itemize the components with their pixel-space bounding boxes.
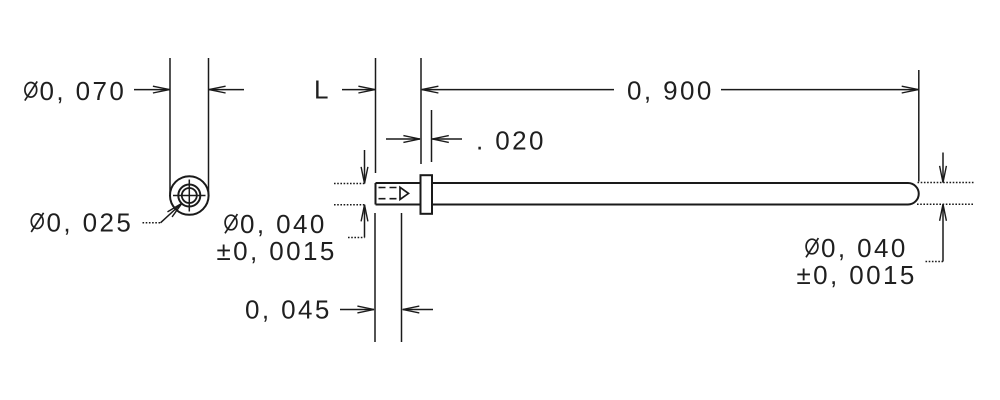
left dim Ø0.040: top extension line (334, 183, 365, 185)
right dim Ø0.040: upper arrow line (942, 153, 944, 183)
end view: middle circle Ø0.040 (178, 185, 200, 207)
extension line: pin right end (top) (918, 70, 920, 182)
dim 0.900: right line segment (721, 89, 918, 91)
dim 0.900: left line segment (422, 89, 614, 91)
dim .020: right arrow line (432, 138, 462, 140)
side view: hidden hole top dashed line (379, 187, 398, 189)
end view: left tangent extension line (169, 58, 171, 194)
dim 0.045: left extension line (374, 213, 376, 342)
end view: right tangent extension line (208, 58, 210, 194)
dim 0.045: right arrow line (403, 309, 433, 311)
side view: collar flange (421, 175, 433, 214)
left dim Ø0.040: bottom extension line (334, 204, 365, 206)
svg-text:0, 900: 0, 900 (627, 76, 714, 106)
dim Ø0.070: right arrowhead (209, 86, 226, 93)
left dim Ø0.040: upper arrowhead (down) (361, 167, 368, 184)
svg-text:±0, 0015: ±0, 0015 (797, 260, 917, 290)
right dim Ø0.040: bottom extension line (917, 203, 974, 205)
end view: centerline vertical (188, 180, 190, 212)
svg-text:0, 025: 0, 025 (47, 208, 134, 238)
right dim Ø0.040: upper arrowhead (down) (940, 166, 947, 183)
dim Ø0.070: left arrowhead (153, 86, 170, 93)
label Ø0.070: diameter symbol (25, 81, 37, 100)
dim .020: left arrowhead (403, 136, 420, 143)
label Ø0.025: diameter symbol (31, 213, 43, 232)
dim Ø0.070: left arrow line (134, 89, 170, 91)
left dim Ø0.040: lower arrow line (364, 205, 366, 238)
dim .020: right arrowhead (432, 136, 449, 143)
svg-text:L: L (314, 75, 328, 105)
extension line: collar left (top) (420, 58, 422, 164)
label left Ø0.040: diameter symbol (225, 214, 237, 233)
side view: pin top edge (376, 182, 909, 184)
end view: centerline horizontal (173, 195, 206, 197)
end view: outer circle Ø0.070 (170, 176, 209, 215)
extension line: pin left end (top) (375, 58, 377, 173)
right dim Ø0.040: leader jog (926, 261, 944, 263)
dim .020: left arrow line (386, 138, 420, 140)
dim Ø0.070: right arrow line (209, 89, 244, 91)
side view: pin left end face (375, 183, 377, 205)
side view: pin bottom edge (376, 204, 909, 206)
svg-text:±0, 0015: ±0, 0015 (217, 236, 337, 266)
svg-text:. 020: . 020 (476, 126, 546, 156)
dim 0.900: right arrowhead (902, 86, 919, 93)
dim 0.900: left arrowhead (422, 86, 439, 93)
right dim Ø0.040: top extension line (918, 182, 974, 184)
leader Ø0.025: arrowhead (167, 201, 184, 217)
dim 0.045: right arrowhead (403, 306, 420, 313)
dim L: arrow line (342, 89, 375, 91)
svg-text:0, 040: 0, 040 (240, 209, 327, 239)
dim 0.045: left arrow line (340, 309, 374, 311)
side view: hidden hole bottom dashed line (379, 198, 398, 200)
svg-text:0, 040: 0, 040 (821, 233, 908, 263)
end view: inner circle Ø0.025 (182, 188, 197, 203)
svg-text:0, 045: 0, 045 (245, 295, 332, 325)
side view: pin rounded right tip (908, 183, 919, 205)
leader Ø0.025: horizontal segment (143, 222, 161, 224)
left dim Ø0.040: leader jog (348, 237, 365, 239)
right dim Ø0.040: lower arrowhead (up) (940, 204, 947, 221)
side view: drill point chevron (400, 187, 409, 199)
label right Ø0.040: diameter symbol (806, 238, 818, 257)
dim 0.045: left arrowhead (357, 306, 374, 313)
left dim Ø0.040: lower arrowhead (up) (361, 205, 368, 222)
svg-text:0, 070: 0, 070 (40, 76, 127, 106)
leader Ø0.025: diagonal segment (161, 204, 182, 223)
dim L: arrowhead (358, 86, 375, 93)
dim 0.045: right extension line (401, 213, 403, 342)
extension line: collar right (top) (431, 110, 433, 162)
right dim Ø0.040: lower arrow line (942, 204, 944, 261)
left dim Ø0.040: upper arrow line (364, 150, 366, 184)
